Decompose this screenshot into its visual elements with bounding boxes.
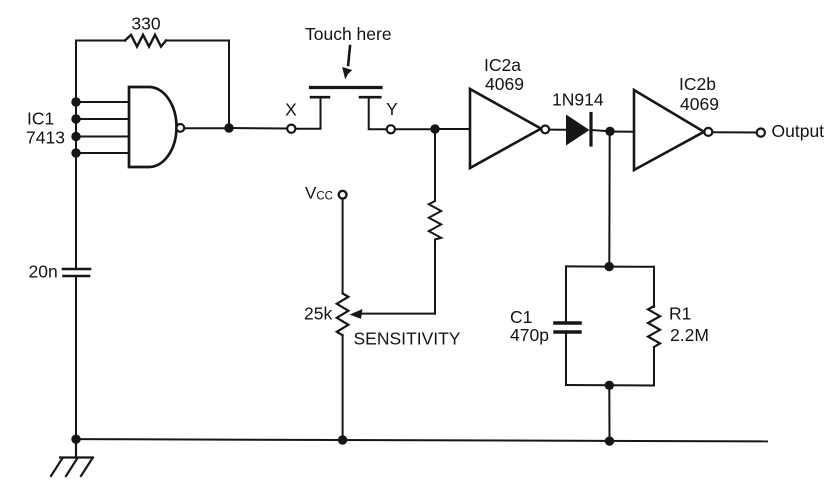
wire: R1 lower lead <box>653 347 655 386</box>
svg-text:2.2M: 2.2M <box>670 325 709 345</box>
capacitor C1 plate top <box>555 321 580 325</box>
bubble on IC2b output <box>704 128 712 136</box>
bubble on IC1 output <box>176 124 184 132</box>
junction dot output node <box>224 123 233 132</box>
svg-text:25k: 25k <box>304 304 332 324</box>
junction dot input 2 <box>71 114 80 123</box>
svg-text:470p: 470p <box>510 325 549 345</box>
svg-text:4069: 4069 <box>680 94 719 114</box>
wire: Y to IC2a input node <box>395 128 435 130</box>
resistor R1 <box>648 306 660 347</box>
junction dot diode node <box>605 127 614 136</box>
wire: diode to node <box>591 130 610 131</box>
inverter IC2b 4069 <box>634 90 704 170</box>
svg-text:C1: C1 <box>510 307 532 327</box>
diode 1N914 <box>566 115 590 146</box>
junction dot input 1 <box>71 97 80 106</box>
arrowhead <box>342 67 352 80</box>
svg-text:VCC: VCC <box>305 184 333 203</box>
arrow to touch plate <box>348 46 350 65</box>
wire: IC1 input 4 <box>76 152 129 154</box>
svg-text:IC2b: IC2b <box>679 74 716 94</box>
potentiometer 25k <box>337 294 349 336</box>
junction dot pot to rail <box>338 435 347 444</box>
wire: left bus upper <box>75 41 77 269</box>
svg-text:7413: 7413 <box>26 128 65 148</box>
junction dot RC top <box>605 262 614 271</box>
terminal Vcc <box>339 191 347 199</box>
svg-text:IC1: IC1 <box>27 109 54 129</box>
wire: right touch contact to Y <box>369 98 386 129</box>
svg-text:X: X <box>285 100 297 120</box>
terminal X <box>287 125 295 133</box>
ground rail <box>76 439 767 441</box>
svg-text:4069: 4069 <box>485 74 524 94</box>
svg-text:Output: Output <box>772 121 825 141</box>
wire: X to left touch contact <box>296 98 321 129</box>
capacitor C1 plate bottom <box>555 330 580 333</box>
svg-text:Y: Y <box>386 99 398 119</box>
wire: node to IC2b <box>610 131 634 133</box>
junction dot ground left <box>71 435 80 444</box>
wire: IC1 input 1 <box>76 101 129 103</box>
wire: RC top bar <box>566 265 654 267</box>
wire: resistor down to wiper line <box>434 240 436 314</box>
bubble on IC2a output <box>541 125 549 133</box>
svg-text:Touch here: Touch here <box>305 24 392 44</box>
wire: Vcc down to pot <box>342 199 344 293</box>
resistor sensitivity series <box>429 201 441 240</box>
wire: IC1 input 3 <box>76 136 129 138</box>
touch contact right bar <box>360 96 380 99</box>
wire: node to X terminal <box>229 127 287 130</box>
wiper arrowhead <box>350 309 363 319</box>
wire: node to IC2a <box>435 128 470 130</box>
wire: R1 upper lead <box>653 267 655 307</box>
wire: wiper horizontal <box>360 313 435 315</box>
wire: RC bottom bar <box>566 384 654 387</box>
nand-gate IC1 7413 <box>129 87 176 167</box>
wire: C1 lower lead <box>565 334 567 385</box>
svg-text:330: 330 <box>131 14 160 34</box>
junction dot IC2a input node <box>430 124 439 133</box>
wire: pot lower lead to ground rail <box>342 335 344 440</box>
wire: IC2a output to diode <box>550 129 567 131</box>
ground symbol <box>51 439 93 476</box>
svg-text:R1: R1 <box>669 304 691 324</box>
wire: diode node down to RC network <box>608 132 610 267</box>
junction dot input 4 <box>71 148 80 157</box>
svg-text:SENSITIVITY: SENSITIVITY <box>354 329 461 349</box>
inverter IC2a 4069 <box>470 89 541 168</box>
wire: IC1 input 2 <box>76 118 129 120</box>
wire: right vertical from 330 down to output node <box>228 41 230 129</box>
wire: left bus lower <box>75 277 77 439</box>
touch contact left bar <box>311 96 329 99</box>
terminal Y <box>387 125 395 133</box>
svg-text:20n: 20n <box>29 262 58 282</box>
svg-text:1N914: 1N914 <box>552 90 604 110</box>
capacitor 20n plate bottom <box>64 275 90 278</box>
touch plate <box>311 86 382 89</box>
junction dot input 3 <box>71 132 80 141</box>
junction dot RC bottom <box>605 381 614 390</box>
capacitor 20n plate top <box>63 268 90 271</box>
wire: sensitivity branch vertical from node <box>434 129 436 200</box>
wire: top feedback left segment <box>76 40 125 42</box>
wire: RC bottom to ground rail <box>608 385 610 441</box>
diode cathode bar <box>589 114 592 146</box>
terminal Output <box>757 129 765 137</box>
wire: IC2b output to Output terminal <box>713 131 757 133</box>
junction dot on rail right <box>605 436 614 445</box>
svg-text:IC2a: IC2a <box>484 55 521 75</box>
wire: top feedback right segment <box>166 40 229 42</box>
wire: IC1 output to node <box>185 127 230 129</box>
resistor 330 <box>125 35 166 47</box>
wire: C1 upper lead <box>565 266 567 320</box>
